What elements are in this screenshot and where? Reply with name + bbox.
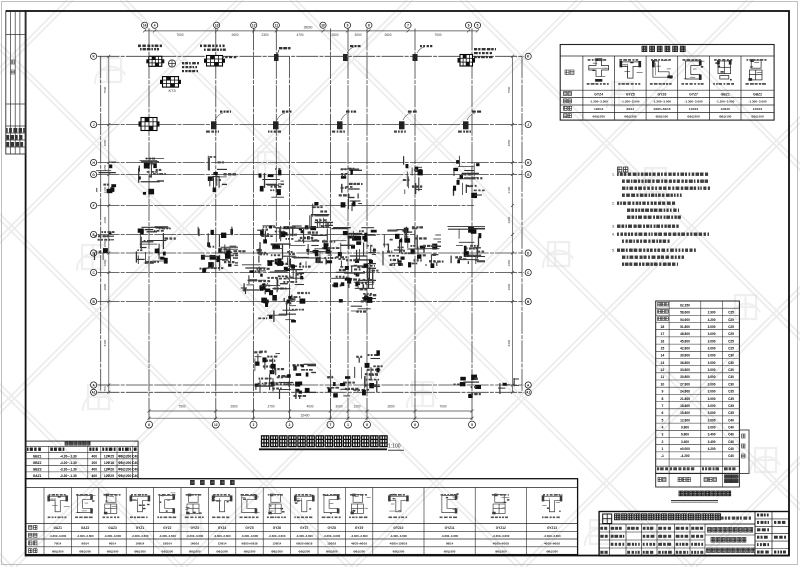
svg-text:8: 8	[366, 423, 368, 427]
svg-text:C40: C40	[132, 461, 138, 465]
svg-text:30.800: 30.800	[680, 375, 690, 379]
svg-text:-3.30~-1.30: -3.30~-1.30	[60, 474, 77, 478]
svg-text:12Φ25: 12Φ25	[104, 474, 114, 478]
top grid bubbles	[142, 22, 148, 28]
svg-text:39.800: 39.800	[680, 354, 690, 358]
svg-text:1950: 1950	[507, 259, 511, 266]
svg-text:3000: 3000	[354, 33, 361, 37]
svg-text:8400: 8400	[103, 339, 107, 346]
svg-text:18: 18	[661, 325, 665, 329]
top dimension line	[145, 30, 478, 32]
svg-text:18Φ14: 18Φ14	[163, 542, 172, 546]
svg-text:C40: C40	[132, 468, 138, 472]
svg-text:7500: 7500	[103, 86, 107, 93]
svg-text:C35: C35	[728, 411, 734, 415]
svg-text:24.800: 24.800	[680, 390, 690, 394]
svg-text:12Φ14: 12Φ14	[594, 107, 604, 111]
svg-text:11: 11	[661, 375, 665, 379]
svg-text:6Φ25+8Φ18: 6Φ25+8Φ18	[296, 542, 312, 546]
svg-text:GBZ2: GBZ2	[753, 92, 762, 96]
svg-text:Φ8@200: Φ8@200	[134, 549, 146, 553]
svg-text:C25: C25	[728, 325, 734, 329]
svg-text:A1: A1	[92, 391, 96, 395]
svg-text:5: 5	[661, 418, 663, 422]
svg-text:GBZ1: GBZ1	[721, 92, 730, 96]
svg-text:J: J	[93, 123, 95, 127]
svg-text:12: 12	[252, 24, 256, 28]
svg-text:-3.300~3.600: -3.300~3.600	[296, 534, 314, 538]
svg-text:Φ8@200: Φ8@200	[118, 468, 131, 472]
svg-text:15: 15	[661, 347, 665, 351]
svg-text:-3.300~3.600: -3.300~3.600	[268, 534, 286, 538]
svg-text:5: 5	[477, 24, 479, 28]
svg-text:3.400: 3.400	[708, 433, 716, 437]
svg-text:12.800: 12.800	[680, 418, 690, 422]
svg-text:Φ8@200: Φ8@200	[79, 549, 91, 553]
svg-text:12Φ16: 12Φ16	[753, 107, 763, 111]
svg-text:Φ8@200: Φ8@200	[118, 474, 131, 478]
svg-text:Φ8@200: Φ8@200	[52, 549, 64, 553]
svg-text:14: 14	[143, 24, 147, 28]
svg-text:C35: C35	[728, 397, 734, 401]
svg-text:GAZ1: GAZ1	[33, 474, 42, 478]
svg-text:8Φ14: 8Φ14	[626, 107, 634, 111]
svg-text:-1.300~3.000: -1.300~3.000	[621, 100, 640, 104]
svg-text:3100: 3100	[507, 186, 511, 193]
svg-text:GYZ6: GYZ6	[273, 526, 282, 530]
svg-text:3.000: 3.000	[708, 375, 716, 379]
svg-text:-4.20~-1.30: -4.20~-1.30	[60, 455, 77, 459]
svg-text:-3.30~-1.30: -3.30~-1.30	[60, 468, 77, 472]
svg-text:12Φ20: 12Φ20	[104, 468, 114, 472]
svg-text:4.200: 4.200	[708, 447, 716, 451]
svg-text:2: 2	[289, 423, 291, 427]
svg-text:-3.300~3.600: -3.300~3.600	[543, 534, 561, 538]
svg-text:2: 2	[253, 423, 255, 427]
svg-text:Φ8@100: Φ8@100	[656, 115, 669, 119]
svg-text:4: 4	[154, 24, 156, 28]
svg-text:2800: 2800	[507, 283, 511, 290]
svg-text:2300: 2300	[261, 33, 268, 37]
svg-text:GBZ3: GBZ3	[33, 468, 42, 472]
svg-text:62.350: 62.350	[680, 303, 690, 307]
svg-text:C30: C30	[728, 354, 734, 358]
svg-text:-3.300~3.600: -3.300~3.600	[241, 534, 259, 538]
svg-text:2: 2	[661, 440, 663, 444]
svg-text:Φ8@200: Φ8@200	[118, 455, 131, 459]
svg-text:18.800: 18.800	[680, 404, 690, 408]
svg-text:6: 6	[661, 411, 663, 415]
svg-text:-3.300~3.600: -3.300~3.600	[49, 534, 67, 538]
svg-text:10: 10	[661, 382, 665, 386]
svg-text:GYZ13: GYZ13	[547, 526, 557, 530]
svg-text:4Φ25+6Φ16: 4Φ25+6Φ16	[351, 542, 367, 546]
svg-text:-4.20~-1.30: -4.20~-1.30	[60, 461, 77, 465]
svg-text:Φ8@200: Φ8@200	[244, 549, 256, 553]
svg-text:12Φ14: 12Φ14	[218, 542, 227, 546]
svg-text:3.000: 3.000	[708, 339, 716, 343]
svg-text:6: 6	[468, 24, 470, 28]
svg-text:7000: 7000	[434, 33, 441, 37]
svg-text:4Φ25+6Φ16: 4Φ25+6Φ16	[544, 542, 560, 546]
svg-text:2700: 2700	[267, 404, 274, 408]
svg-text:33.800: 33.800	[680, 368, 690, 372]
svg-text:400: 400	[92, 468, 98, 472]
svg-text:3.000: 3.000	[708, 411, 716, 415]
svg-text:32400: 32400	[301, 413, 310, 417]
svg-text:GYZ11: GYZ11	[445, 526, 455, 530]
watermark logos	[95, 58, 125, 84]
svg-text:Φ8@200: Φ8@200	[393, 549, 405, 553]
svg-text:8Φ14: 8Φ14	[446, 542, 454, 546]
svg-text:-1.300~3.000: -1.300~3.000	[748, 100, 767, 104]
svg-text:6Φ14: 6Φ14	[109, 542, 117, 546]
first floor wall column schedule table	[26, 479, 578, 555]
svg-text:2600: 2600	[387, 404, 394, 408]
svg-text:3.000: 3.000	[708, 325, 716, 329]
vertical grid lines	[100, 56, 102, 392]
svg-text:3.000: 3.000	[708, 397, 716, 401]
svg-text:3.: 3.	[612, 225, 615, 229]
svg-text:4700: 4700	[296, 33, 303, 37]
svg-text:10: 10	[321, 24, 325, 28]
wall segments row C (y=155-200)	[99, 172, 116, 174]
notes block	[618, 167, 622, 172]
svg-text:6Φ25+6Φ18: 6Φ25+6Φ18	[241, 542, 257, 546]
svg-text:28600: 28600	[304, 25, 313, 29]
left dimension line	[108, 56, 110, 392]
svg-text:2900: 2900	[103, 216, 107, 223]
svg-text:C40: C40	[728, 426, 734, 430]
svg-text:-3.300~3.600: -3.300~3.600	[214, 534, 232, 538]
svg-text:1: 1	[347, 423, 349, 427]
title block	[599, 512, 789, 556]
svg-text:±0.000: ±0.000	[680, 447, 690, 451]
svg-text:Φ8@200: Φ8@200	[216, 549, 228, 553]
svg-text:27.800: 27.800	[680, 382, 690, 386]
svg-text:12Φ16: 12Φ16	[720, 107, 730, 111]
svg-text:3.000: 3.000	[708, 382, 716, 386]
svg-text:4.: 4.	[612, 233, 615, 237]
svg-text:1950: 1950	[103, 259, 107, 266]
svg-text:2600: 2600	[231, 33, 238, 37]
svg-text:42.800: 42.800	[680, 347, 690, 351]
svg-text:2600: 2600	[384, 33, 391, 37]
svg-text:GYZ9: GYZ9	[355, 526, 364, 530]
svg-text:21.800: 21.800	[680, 397, 690, 401]
svg-text:36.800: 36.800	[680, 361, 690, 365]
svg-text:3.000: 3.000	[708, 426, 716, 430]
svg-text:16Φ16: 16Φ16	[190, 542, 199, 546]
svg-text:GAZ3: GAZ3	[108, 526, 117, 530]
svg-text:C40: C40	[728, 454, 734, 458]
svg-text:-3.300~3.600: -3.300~3.600	[351, 534, 369, 538]
svg-text:C25: C25	[728, 311, 734, 315]
svg-text:4Φ25+12Φ16: 4Φ25+12Φ16	[390, 542, 408, 546]
svg-text:C40: C40	[132, 455, 138, 459]
svg-text:C30: C30	[728, 361, 734, 365]
svg-text:C25: C25	[728, 332, 734, 336]
svg-text:1.: 1.	[612, 173, 615, 177]
floor level table	[656, 301, 740, 473]
svg-text:C40: C40	[728, 418, 734, 422]
main drawing title	[262, 436, 269, 447]
svg-text:11: 11	[275, 24, 279, 28]
svg-text:7000: 7000	[439, 404, 446, 408]
svg-text:F: F	[93, 204, 95, 208]
svg-text:-1: -1	[661, 454, 664, 458]
svg-text:Φ8@200: Φ8@200	[189, 549, 201, 553]
svg-text:4Φ25+6Φ18: 4Φ25+6Φ18	[493, 542, 509, 546]
svg-text:GYZ5: GYZ5	[626, 92, 635, 96]
svg-text:13: 13	[215, 24, 219, 28]
svg-text:-1.300~3.000: -1.300~3.000	[590, 100, 609, 104]
svg-text:1: 1	[661, 447, 663, 451]
svg-text:GYZ5: GYZ5	[245, 526, 254, 530]
svg-text:Φ8@200: Φ8@200	[592, 115, 605, 119]
bottom clusters	[264, 358, 266, 370]
bottom grid bubbles	[146, 421, 153, 428]
svg-text:9: 9	[661, 390, 663, 394]
svg-text:51.800: 51.800	[680, 325, 690, 329]
svg-text:GYZ4: GYZ4	[218, 526, 227, 530]
svg-text:3000: 3000	[335, 404, 342, 408]
svg-text:2600: 2600	[230, 404, 237, 408]
svg-text:4Φ25+6Φ18: 4Φ25+6Φ18	[653, 107, 670, 111]
svg-text:A1: A1	[526, 391, 530, 395]
left signature strip table	[6, 11, 26, 154]
svg-text:C25: C25	[728, 339, 734, 343]
svg-text:Φ8@200: Φ8@200	[687, 115, 700, 119]
svg-text:3.000: 3.000	[708, 354, 716, 358]
svg-text:Φ8@200: Φ8@200	[298, 549, 310, 553]
shear wall column table (top right)	[560, 45, 774, 121]
svg-text:C35: C35	[728, 404, 734, 408]
svg-text:3.000: 3.000	[708, 361, 716, 365]
svg-text:8: 8	[414, 423, 416, 427]
svg-text:12Φ25: 12Φ25	[104, 455, 114, 459]
svg-text:-3.300~3.600: -3.300~3.600	[131, 534, 149, 538]
svg-text:Φ8@200: Φ8@200	[353, 549, 365, 553]
svg-text:C35: C35	[728, 390, 734, 394]
svg-text:2.: 2.	[612, 202, 615, 206]
svg-text:Φ8@200: Φ8@200	[444, 549, 456, 553]
svg-text:7500: 7500	[178, 404, 185, 408]
svg-text:4: 4	[661, 426, 663, 430]
svg-text:Φ8@100: Φ8@100	[751, 115, 764, 119]
svg-text:C40: C40	[728, 440, 734, 444]
svg-text:Φ8@200: Φ8@200	[326, 549, 338, 553]
svg-text:8: 8	[368, 24, 370, 28]
svg-text:12Φ18: 12Φ18	[104, 461, 114, 465]
svg-text:Φ8@200: Φ8@200	[495, 549, 507, 553]
bottom dimension lines	[149, 410, 472, 412]
basement wall column mini table	[25, 441, 138, 478]
svg-text:GYZ7: GYZ7	[689, 92, 698, 96]
svg-text:E: E	[93, 233, 95, 237]
svg-text:-1.300~3.000: -1.300~3.000	[684, 100, 703, 104]
svg-text:-3.300~3.600: -3.300~3.600	[186, 534, 204, 538]
svg-text:GBZ1: GBZ1	[33, 455, 42, 459]
svg-text:17: 17	[661, 332, 665, 336]
svg-text:2600: 2600	[331, 33, 338, 37]
svg-text:4000: 4000	[306, 404, 313, 408]
svg-text:C30: C30	[728, 375, 734, 379]
svg-text:4.200: 4.200	[708, 318, 716, 322]
svg-text:Φ8@200: Φ8@200	[624, 115, 637, 119]
svg-text:-3.300~3.600: -3.300~3.600	[492, 534, 510, 538]
horizontal grid lines	[98, 55, 525, 57]
svg-text:4050: 4050	[103, 139, 107, 146]
svg-text:7: 7	[330, 423, 332, 427]
svg-text:Φ8@200: Φ8@200	[118, 461, 131, 465]
svg-text:5: 5	[471, 423, 473, 427]
svg-text:GAZ1: GAZ1	[53, 526, 62, 530]
svg-text:-1.300~3.000: -1.300~3.000	[653, 100, 672, 104]
svg-text:7: 7	[407, 24, 409, 28]
svg-text:3.400: 3.400	[708, 440, 716, 444]
svg-text:12: 12	[214, 423, 218, 427]
svg-text:6.800: 6.800	[681, 433, 689, 437]
svg-text:9: 9	[347, 24, 349, 28]
svg-text:48.800: 48.800	[680, 332, 690, 336]
svg-text:GYZ12: GYZ12	[496, 526, 506, 530]
svg-text:C30: C30	[728, 368, 734, 372]
svg-text:7Φ14: 7Φ14	[54, 542, 62, 546]
svg-text:12: 12	[661, 368, 665, 372]
svg-text:14Φ16: 14Φ16	[689, 107, 699, 111]
svg-text:GYZ7: GYZ7	[300, 526, 309, 530]
svg-text:9.800: 9.800	[681, 426, 689, 430]
svg-text:7500: 7500	[507, 86, 511, 93]
svg-text:Φ8@200: Φ8@200	[271, 549, 283, 553]
svg-text:GYZ8: GYZ8	[328, 526, 337, 530]
svg-text:6: 6	[148, 423, 150, 427]
svg-text:-4.200: -4.200	[680, 454, 689, 458]
svg-text:8400: 8400	[507, 339, 511, 346]
svg-text:GBZ2: GBZ2	[33, 461, 42, 465]
svg-text:3.000: 3.000	[708, 332, 716, 336]
svg-text:2.900: 2.900	[708, 311, 716, 315]
column marks on line H (y=124)	[141, 118, 157, 131]
svg-text:-3.300~3.600: -3.300~3.600	[323, 534, 341, 538]
svg-text:400: 400	[92, 474, 98, 478]
svg-text:GAZ2: GAZ2	[81, 526, 90, 530]
svg-text:3.000: 3.000	[708, 418, 716, 422]
svg-text:7: 7	[661, 404, 663, 408]
svg-text:58.600: 58.600	[680, 311, 690, 315]
svg-text:-3.300~3.600: -3.300~3.600	[104, 534, 122, 538]
svg-text:-3.300~3.600: -3.300~3.600	[77, 534, 95, 538]
svg-text:Φ8@100: Φ8@100	[719, 115, 732, 119]
svg-text:1200: 1200	[353, 404, 360, 408]
svg-text:C25: C25	[728, 347, 734, 351]
svg-text:3.000: 3.000	[708, 390, 716, 394]
svg-text:Φ8@200: Φ8@200	[546, 549, 558, 553]
svg-text:C40: C40	[132, 474, 138, 478]
svg-text:45.800: 45.800	[680, 339, 690, 343]
svg-text:2900: 2900	[507, 216, 511, 223]
svg-text:1850: 1850	[103, 240, 107, 247]
svg-text:14: 14	[661, 354, 665, 358]
svg-text:GYZ6: GYZ6	[657, 92, 666, 96]
svg-text:1:100: 1:100	[388, 443, 401, 449]
svg-text:400: 400	[92, 455, 98, 459]
svg-text:4050: 4050	[507, 139, 511, 146]
right dimension line	[512, 56, 514, 392]
svg-text:2800: 2800	[103, 283, 107, 290]
svg-text:Φ8@200: Φ8@200	[107, 549, 119, 553]
column clusters top row	[149, 56, 162, 66]
svg-text:GYZ10: GYZ10	[393, 526, 403, 530]
svg-text:13: 13	[661, 361, 665, 365]
svg-text:750: 750	[103, 386, 107, 391]
svg-text:5.: 5.	[612, 249, 615, 253]
svg-text:K73: K73	[168, 88, 176, 93]
svg-text:7000: 7000	[176, 33, 183, 37]
svg-text:C40: C40	[728, 447, 734, 451]
svg-text:8: 8	[661, 397, 663, 401]
svg-text:3: 3	[661, 433, 663, 437]
svg-text:C30: C30	[728, 382, 734, 386]
svg-text:-3.300~3.600: -3.300~3.600	[159, 534, 177, 538]
svg-text:3.000: 3.000	[708, 404, 716, 408]
svg-text:16Φ14: 16Φ14	[135, 542, 144, 546]
svg-text:-1.300~3.000: -1.300~3.000	[716, 100, 735, 104]
svg-text:200: 200	[92, 461, 98, 465]
svg-text:54.600: 54.600	[680, 318, 690, 322]
svg-text:GYZ1: GYZ1	[136, 526, 145, 530]
svg-text:Φ8@200: Φ8@200	[161, 549, 173, 553]
svg-text:3.000: 3.000	[708, 368, 716, 372]
svg-text:-3.300~3.600: -3.300~3.600	[390, 534, 408, 538]
svg-text:GYZ3: GYZ3	[191, 526, 200, 530]
svg-text:12Φ14: 12Φ14	[272, 542, 281, 546]
svg-text:C25: C25	[728, 318, 734, 322]
svg-text:3.000: 3.000	[708, 347, 716, 351]
svg-text:15.800: 15.800	[680, 411, 690, 415]
svg-text:GYZ2: GYZ2	[163, 526, 172, 530]
cluster D row (y=200-230)	[310, 215, 312, 227]
svg-text:GYZ4: GYZ4	[594, 92, 603, 96]
svg-text:8Φ14: 8Φ14	[81, 542, 89, 546]
svg-text:J: J	[527, 123, 529, 127]
svg-text:16: 16	[661, 339, 665, 343]
svg-text:-3.300~3.600: -3.300~3.600	[441, 534, 459, 538]
svg-text:12Φ16: 12Φ16	[327, 542, 336, 546]
svg-text:C40: C40	[728, 433, 734, 437]
svg-text:3.400: 3.400	[681, 440, 689, 444]
central dense band	[103, 235, 114, 237]
